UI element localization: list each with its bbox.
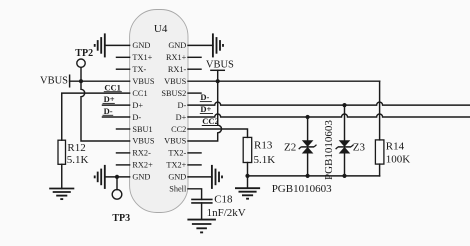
svg-text:R14: R14: [386, 141, 405, 153]
connector U4 body: [130, 10, 188, 213]
power port VBUS left: [40, 75, 70, 87]
wire GND pin12 left: [105, 176, 130, 178]
svg-text:U4: U4: [154, 23, 168, 35]
svg-text:1nF/2kV: 1nF/2kV: [207, 207, 246, 219]
U4 pin TX2- right10: [168, 149, 201, 158]
svg-text:RX2+: RX2+: [132, 161, 153, 170]
resistor R12: [58, 140, 89, 166]
junction VBUS right: [216, 79, 220, 83]
svg-text:5.1K: 5.1K: [254, 154, 276, 166]
TVS diode Z2: [284, 140, 317, 153]
junction D+ / Z2: [306, 115, 310, 119]
wire rail to ground: [247, 176, 249, 188]
svg-text:SBUS2: SBUS2: [161, 89, 186, 98]
capacitor C18: [191, 193, 246, 219]
wire VBUS drop to pin9 right (hops over CC2): [188, 81, 222, 141]
svg-text:VBUS: VBUS: [40, 76, 68, 87]
ground top-right (rotated): [213, 33, 223, 57]
svg-text:D+: D+: [104, 94, 115, 104]
junction VBUS left: [79, 79, 83, 83]
svg-text:PGB1010603: PGB1010603: [272, 183, 332, 195]
U4 pin TX2+ right11: [166, 161, 201, 170]
svg-text:D-: D-: [178, 101, 187, 110]
net label CC1: [104, 82, 122, 92]
power port VBUS right: [206, 60, 234, 82]
wire D- right (hops at x218 and x380): [188, 102, 470, 105]
wire CC2 from pin8 to R13: [188, 129, 248, 137]
ground top-left (rotated): [95, 33, 105, 57]
net label D- left: [103, 106, 114, 116]
ground rail wire: [248, 175, 380, 177]
svg-text:C18: C18: [214, 193, 233, 205]
junction rail left: [245, 174, 249, 178]
svg-text:TX2+: TX2+: [166, 161, 186, 170]
svg-text:D+: D+: [132, 101, 143, 110]
U4 pin RX1- right3: [168, 65, 201, 74]
svg-text:D+: D+: [176, 113, 187, 122]
wire R13 bottom to rail: [247, 163, 249, 176]
svg-text:100K: 100K: [386, 154, 411, 166]
junction TP3: [115, 175, 119, 179]
svg-text:TX1+: TX1+: [132, 53, 152, 62]
net label D+ right: [200, 104, 213, 114]
svg-text:VBUS: VBUS: [164, 77, 187, 86]
resistor R13: [243, 137, 275, 166]
wire CC1 from pin5 to R12: [62, 93, 130, 140]
svg-text:TX-: TX-: [132, 65, 146, 74]
svg-text:D-: D-: [200, 92, 209, 102]
wire Z2 bottom: [307, 153, 309, 176]
wire Z2 top drop: [307, 117, 309, 140]
svg-text:CC2: CC2: [202, 116, 219, 126]
svg-text:VBUS: VBUS: [132, 77, 155, 86]
U4 pin RX2- left10: [117, 149, 152, 158]
svg-text:GND: GND: [168, 173, 186, 182]
wire GND pin1 left: [105, 44, 130, 46]
wire VBUS pin4 right to R14 drop: [188, 80, 380, 82]
wire VBUS drop to pin9 left (hops over CC1): [81, 81, 130, 141]
TVS diode Z3: [336, 140, 366, 153]
svg-text:RX2-: RX2-: [132, 149, 151, 158]
net label D+ left: [103, 94, 115, 104]
svg-text:R13: R13: [254, 140, 273, 152]
svg-text:Z2: Z2: [284, 142, 296, 154]
U4 pin SBU1 left8: [117, 125, 153, 134]
svg-text:VBUS: VBUS: [206, 60, 234, 71]
ground below R13: [235, 188, 260, 199]
svg-text:SBU1: SBU1: [132, 125, 152, 134]
resistor R14: [375, 140, 410, 166]
svg-text:GND: GND: [132, 41, 150, 50]
svg-text:D-: D-: [104, 106, 113, 116]
svg-text:Shell: Shell: [169, 185, 187, 194]
U4 pin SBUS2 right5: [161, 89, 201, 98]
svg-text:R12: R12: [67, 142, 85, 154]
svg-text:CC2: CC2: [171, 125, 186, 134]
wire VBUS left to U4 pin4: [70, 80, 130, 82]
U4 pin RX2+ left11: [117, 161, 154, 170]
junction Z2 rail: [306, 174, 310, 178]
svg-text:RX1-: RX1-: [168, 65, 187, 74]
svg-text:D+: D+: [200, 104, 211, 114]
svg-text:RX1+: RX1+: [166, 53, 187, 62]
net label D- right: [200, 92, 212, 102]
test point TP2: [75, 48, 93, 81]
svg-text:TP2: TP2: [75, 48, 93, 59]
svg-text:Z3: Z3: [353, 142, 366, 154]
U4 pin TX- left3: [117, 65, 147, 74]
wire Z3 bottom: [344, 153, 346, 176]
wire D+ right (hops at x218, x344.5, x380): [188, 114, 470, 117]
svg-text:CC1: CC1: [104, 82, 121, 92]
svg-text:TP3: TP3: [112, 213, 130, 224]
svg-text:GND: GND: [168, 41, 186, 50]
test point TP3: [112, 177, 130, 224]
svg-text:VBUS: VBUS: [164, 137, 187, 146]
junction Z3 rail: [342, 174, 346, 178]
wire D- left stub: [103, 116, 130, 118]
wire R12 to ground: [61, 164, 63, 188]
ground below C18: [187, 220, 216, 233]
svg-text:5.1K: 5.1K: [67, 154, 89, 166]
wire C18 to ground: [201, 203, 203, 220]
wire D+ left stub: [103, 104, 130, 106]
ground bottom-right (rotated): [212, 165, 222, 189]
U4 pin TX1+ left2: [117, 53, 153, 62]
wire Z3 top drop: [344, 105, 346, 140]
wire Shell to C18: [188, 189, 202, 200]
wire GND pin12 right: [188, 176, 212, 178]
svg-text:TX2-: TX2-: [168, 149, 186, 158]
net label CC2: [202, 116, 220, 126]
svg-text:PGB1010603: PGB1010603: [323, 120, 335, 180]
svg-text:D-: D-: [132, 113, 141, 122]
svg-text:VBUS: VBUS: [132, 137, 155, 146]
wire GND pin1 right: [188, 44, 213, 46]
wire R14 top drop: [379, 81, 381, 140]
svg-text:CC1: CC1: [132, 89, 147, 98]
svg-text:GND: GND: [132, 173, 150, 182]
ground below R12: [49, 189, 74, 200]
U4 pin RX1+ right2: [166, 53, 201, 62]
ground bottom-left (rotated): [95, 165, 105, 189]
junction D- / Z3: [342, 103, 346, 107]
wire R14 bottom to rail: [379, 164, 381, 176]
